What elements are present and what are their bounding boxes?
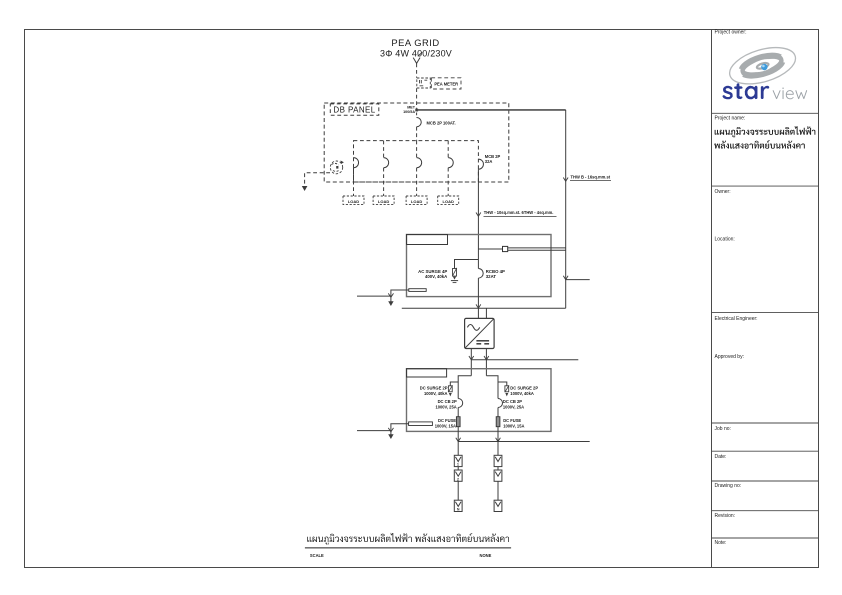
wire: DC PE run (471, 359, 578, 361)
inverter diagonal (465, 319, 494, 348)
wire: string1 long link (457, 481, 459, 500)
svg-text:100/5A: 100/5A (403, 110, 415, 114)
svg-text:Revision:: Revision: (715, 513, 736, 519)
PV module string2 M1 (494, 455, 502, 466)
feeder ground stub (566, 279, 590, 281)
node: service entrance junction (415, 109, 418, 112)
starview logo galaxy swirl (725, 41, 799, 91)
svg-text:2: 2 (457, 477, 459, 481)
AC surge arrester branch (455, 260, 479, 269)
wire: DC ground (391, 424, 409, 435)
svg-text:THW - 10sq.mm.st. 6THW - 4sq.m: THW - 10sq.mm.st. 6THW - 4sq.mm. (484, 210, 554, 215)
svg-text:RCBO 4P: RCBO 4P (486, 269, 505, 274)
svg-text:1000V, 25A: 1000V, 25A (503, 404, 524, 409)
PV module string2 M2 (494, 470, 502, 481)
caption underline (305, 547, 511, 549)
svg-text:32A: 32A (485, 159, 493, 164)
svg-text:DB PANEL: DB PANEL (333, 106, 375, 115)
starview wordmark "star" (723, 83, 770, 99)
PV module string1 M1 (454, 455, 462, 466)
svg-text:PEA GRID: PEA GRID (391, 37, 439, 48)
wire: branch circuit 4 (dashed) (447, 141, 449, 158)
svg-text:SCALE: SCALE (310, 553, 324, 558)
svg-text:DC FUSE: DC FUSE (503, 418, 521, 423)
drawing title Thai caption (307, 533, 509, 545)
svg-text:1000V, 15A: 1000V, 15A (435, 423, 456, 428)
title block divider (left edge) (711, 30, 713, 568)
AC surge device (453, 269, 457, 277)
wire: kWh meter double line to feeder (508, 247, 566, 249)
wire: branch circuit 3 (dashed) (416, 141, 418, 158)
wire: PV circuit down from MCB32 (477, 169, 479, 268)
PV module string2 M3 (494, 500, 502, 511)
wire: feeder to PV system (solid, to right) (417, 109, 566, 111)
svg-text:1000V, 40kA: 1000V, 40kA (510, 391, 534, 396)
svg-text:Drawing no:: Drawing no: (715, 483, 742, 489)
svg-text:32AT: 32AT (486, 274, 497, 279)
wire: PEA service drop (dashed) (416, 64, 418, 78)
svg-text:1000V, 25A: 1000V, 25A (435, 404, 456, 409)
svg-text:1000V, 15A: 1000V, 15A (503, 423, 524, 428)
svg-text:Project owner:: Project owner: (715, 30, 747, 36)
svg-text:THW B - 16sq.mm.st: THW B - 16sq.mm.st (571, 175, 611, 180)
breaker branch 1 (354, 158, 359, 168)
load box 2 (373, 196, 394, 205)
junction arrow on feeder (563, 178, 568, 182)
wire: AC ground (391, 290, 409, 302)
title block section separators (712, 112, 819, 114)
svg-text:AC SURGE 4P: AC SURGE 4P (418, 269, 447, 274)
wire: feeder vertical (right) (565, 110, 567, 308)
svg-text:1: 1 (457, 463, 459, 467)
DC surge device right (505, 386, 509, 392)
ground arrow (DC box) (388, 434, 393, 439)
svg-text:Project name:: Project name: (715, 116, 746, 122)
svg-text:LOAD: LOAD (348, 199, 359, 204)
fuse DC right (496, 417, 500, 427)
DC surge device left (448, 386, 452, 392)
kWh meter square (503, 246, 508, 251)
svg-text:PEA METER: PEA METER (434, 81, 458, 86)
svg-text:3Φ 4W 400/230V: 3Φ 4W 400/230V (380, 49, 452, 59)
breaker branch 4 (448, 158, 453, 168)
DC box name plate (407, 369, 447, 377)
svg-text:Approved by:: Approved by: (715, 354, 744, 360)
breaker branch 2 (384, 158, 389, 168)
DB PANEL label box (330, 104, 379, 115)
svg-text:LOAD: LOAD (411, 199, 422, 204)
utility source arrow (413, 52, 422, 63)
kWh meter tap wire (478, 248, 502, 250)
wire: DB panel ground (dashed) (305, 173, 330, 187)
breaker DC CB 2P right (498, 399, 503, 408)
svg-text:Note:: Note: (715, 540, 727, 546)
wire: main dashed continues (416, 127, 418, 141)
load box 3 (406, 196, 427, 205)
starview wordmark "view" (773, 88, 807, 100)
svg-text:LOAD: LOAD (378, 199, 389, 204)
wire: DC- jog (486, 376, 498, 399)
AC combiner box enclosure (407, 235, 552, 297)
DB PANEL outer enclosure (dashed) (324, 103, 509, 182)
ground arrow (DB panel) (302, 186, 308, 191)
wire: string 1 below box (457, 427, 459, 456)
breaker RCBO 4P 32AT (478, 269, 483, 279)
wire: branch circuit 2 (dashed) (383, 141, 385, 158)
inverter AC sine symbol (467, 325, 479, 331)
ground bond wire (DC) (357, 430, 391, 432)
DC surge branch left (450, 382, 458, 386)
svg-text:Location:: Location: (715, 237, 735, 243)
wire: string 2 below box (497, 427, 499, 456)
wire: DC+ jog (458, 376, 471, 399)
DC combiner box enclosure (407, 369, 552, 432)
wire: DC PE lower run (458, 441, 590, 443)
inverter box (465, 318, 495, 348)
svg-text:Owner:: Owner: (715, 189, 731, 195)
svg-text:MCB 2P 100AT.: MCB 2P 100AT. (427, 121, 456, 126)
wire: string1 link (457, 467, 459, 470)
ground bond wire (AC) (357, 295, 391, 297)
kWh meter symbol (417, 78, 431, 88)
AC ground busbar (409, 289, 426, 292)
load box 1 (343, 196, 364, 205)
svg-text:Electrical Engineer:: Electrical Engineer: (715, 316, 758, 322)
wire: branch circuit 1 (dashed) (353, 168, 355, 196)
PV module string1 M2 (454, 470, 462, 481)
wire: string2 long link (497, 481, 499, 500)
svg-text:DC CB 2P: DC CB 2P (438, 399, 457, 404)
svg-text:400V, 40kA: 400V, 40kA (425, 274, 447, 279)
svg-text:Date:: Date: (715, 454, 727, 460)
svg-text:LOAD: LOAD (443, 199, 454, 204)
svg-text:DC CB 2P: DC CB 2P (503, 399, 522, 404)
AC box name plate (407, 235, 448, 245)
junction arrow inverter AC L (476, 304, 481, 308)
DB inner distribution box (dashed) (354, 141, 479, 182)
svg-text:DC FUSE: DC FUSE (438, 418, 456, 423)
fuse DC left (456, 417, 460, 427)
breaker MCB 2P 32A (PV circuit) (478, 159, 483, 169)
svg-text:NONE: NONE (480, 553, 492, 558)
svg-text:1000V, 40kA: 1000V, 40kA (424, 391, 448, 396)
inverter DC symbol (476, 340, 489, 342)
svg-text:Job no:: Job no: (715, 426, 731, 432)
wire: RCBO output (477, 278, 479, 318)
wire: inverter DC- (485, 349, 487, 376)
DC surge branch right (498, 382, 507, 386)
breaker DC CB 2P left (458, 399, 463, 408)
wire: inverter DC+ (470, 349, 472, 376)
ground arrow (AC box) (388, 301, 393, 306)
wire: string2 link (497, 467, 499, 470)
PEA METER box (431, 78, 461, 89)
project name Thai line 2 (714, 140, 805, 149)
DC ground busbar (409, 422, 433, 426)
PV module string1 M3 (454, 500, 462, 511)
load box 4 (438, 196, 459, 205)
junction arrow on PV circuit (476, 213, 481, 217)
svg-text:DC SURGE 2P: DC SURGE 2P (510, 385, 538, 390)
breaker MCB 2P 100AT (main) (417, 118, 422, 127)
meter symbol inside DB panel (330, 161, 342, 174)
svg-text:DC SURGE 2P: DC SURGE 2P (420, 385, 448, 390)
wire: AC neutral run (402, 307, 566, 309)
starview logo blue star (761, 64, 767, 70)
project name Thai line 1 (715, 126, 816, 137)
wire: inverter AC N drop (485, 308, 487, 318)
breaker branch 3 (417, 158, 422, 168)
svg-text:MET: MET (407, 105, 416, 109)
